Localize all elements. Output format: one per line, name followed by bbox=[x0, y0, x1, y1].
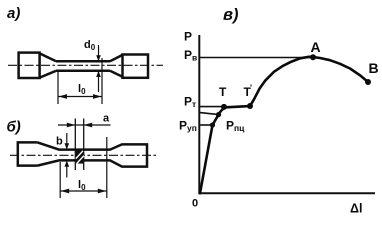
label B bbox=[369, 60, 379, 76]
svg-text:l0: l0 bbox=[78, 179, 86, 192]
svg-text:0: 0 bbox=[192, 198, 198, 210]
svg-text:Pт: Pт bbox=[184, 95, 196, 110]
point Pup bbox=[216, 112, 221, 117]
extension lines l0 specimen b bbox=[60, 137, 107, 198]
section plane lines specimen b bbox=[75, 119, 83, 171]
axis P vertical bbox=[198, 35, 200, 194]
dimension l0 specimen a bbox=[58, 94, 102, 99]
svg-text:a: a bbox=[103, 113, 110, 125]
point Ppc bbox=[210, 122, 215, 127]
left grip rect bbox=[19, 53, 40, 78]
svg-text:Pпц: Pпц bbox=[226, 119, 245, 134]
label P bbox=[184, 30, 192, 44]
label dl bbox=[350, 202, 362, 216]
dimension d0 specimen a bbox=[96, 45, 101, 92]
svg-text:l0: l0 bbox=[78, 83, 86, 96]
hatched cross-section bbox=[76, 150, 84, 163]
reference line Ppc bbox=[200, 124, 213, 126]
label T bbox=[219, 85, 227, 99]
point A bbox=[310, 54, 316, 60]
label Pt bbox=[184, 95, 196, 110]
right grip rect bbox=[123, 55, 149, 78]
dimension b specimen b bbox=[65, 133, 70, 178]
svg-text:а): а) bbox=[7, 5, 20, 22]
svg-text:Pв: Pв bbox=[184, 48, 197, 63]
reference line Pt bbox=[200, 106, 224, 108]
specimen b outline bbox=[18, 142, 147, 166]
svg-text:A: A bbox=[311, 39, 321, 55]
svg-text:б): б) bbox=[7, 119, 21, 136]
tension curve bbox=[200, 57, 368, 194]
svg-text:d0: d0 bbox=[84, 39, 96, 52]
svg-text:Pуп: Pуп bbox=[179, 119, 197, 134]
gauge section a bbox=[56, 61, 110, 71]
svg-text:в): в) bbox=[223, 6, 239, 24]
centerline specimen a bbox=[8, 64, 163, 66]
label Pup bbox=[179, 119, 197, 134]
svg-text:b: b bbox=[56, 136, 63, 148]
dimension l0 specimen b bbox=[60, 189, 107, 194]
label b) bbox=[7, 119, 21, 136]
point B bbox=[365, 79, 371, 85]
label Pv bbox=[184, 48, 197, 63]
label v) bbox=[223, 6, 239, 24]
svg-text:P: P bbox=[184, 30, 192, 44]
extension lines l0 specimen a bbox=[58, 58, 102, 104]
svg-text:T: T bbox=[219, 85, 227, 99]
reference line Pup bbox=[200, 113, 219, 115]
label a) bbox=[7, 5, 20, 22]
label T' bbox=[244, 83, 253, 100]
svg-text:T': T' bbox=[244, 83, 253, 100]
label A bbox=[311, 39, 321, 55]
point T' bbox=[247, 103, 253, 109]
svg-text:Δl: Δl bbox=[350, 202, 362, 216]
label 0 bbox=[192, 198, 198, 210]
left taper bbox=[40, 53, 56, 77]
centerline specimen b bbox=[10, 154, 158, 156]
specimen a outline bbox=[19, 53, 148, 78]
reference line Pv bbox=[200, 57, 313, 59]
point T bbox=[221, 104, 227, 110]
right taper bbox=[110, 55, 123, 77]
label Ppc bbox=[226, 119, 245, 134]
dimension a specimen b bbox=[58, 123, 111, 128]
svg-text:B: B bbox=[369, 60, 379, 76]
axis dl horizontal bbox=[199, 192, 376, 194]
